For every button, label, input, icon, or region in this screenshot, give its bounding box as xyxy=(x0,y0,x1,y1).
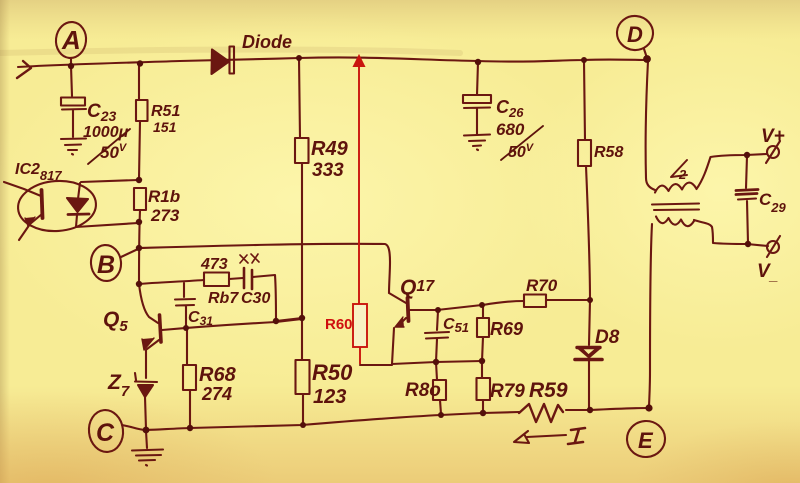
inductor L2 top winding xyxy=(655,183,696,193)
resistor R49 xyxy=(299,58,302,318)
transistor Q5 xyxy=(139,284,158,323)
svg-text:123: 123 xyxy=(313,386,346,408)
resistor R59 (zigzag) xyxy=(519,404,563,422)
svg-text:R8o: R8o xyxy=(405,380,441,401)
highlight line for R60 xyxy=(359,62,360,364)
resistor R69 xyxy=(482,306,483,361)
inductor L2 bottom winding xyxy=(656,217,694,227)
slash through C23 voltage xyxy=(88,129,130,164)
svg-text:680: 680 xyxy=(496,120,525,139)
crossed-out marks above C30 xyxy=(240,254,259,263)
svg-text:R69: R69 xyxy=(490,319,523,339)
paper crease shadow above top rail xyxy=(0,50,460,53)
L2 core xyxy=(652,204,699,211)
op-coupler IC2 xyxy=(16,178,97,233)
svg-text:B: B xyxy=(97,251,115,279)
svg-text:C30: C30 xyxy=(241,290,270,307)
capacitor C26 xyxy=(477,62,478,95)
wire: L2 bottom winding to V- xyxy=(694,220,768,246)
V- terminal xyxy=(767,241,779,253)
svg-text:Rb7: Rb7 xyxy=(208,290,239,307)
slash through C26 voltage xyxy=(501,126,543,160)
svg-text:A: A xyxy=(61,25,81,55)
wire: R60 bottom to Q17 emitter xyxy=(360,364,392,366)
resistor R16 xyxy=(134,188,146,210)
svg-text:R68: R68 xyxy=(199,364,237,386)
ground (C23) xyxy=(61,139,86,155)
wire: IC2 bottom lead to R16 node xyxy=(76,223,138,227)
capacitor C29 xyxy=(746,156,747,188)
junction dots xyxy=(68,63,74,69)
ground (node C) xyxy=(146,431,147,448)
svg-text:R79: R79 xyxy=(490,381,525,402)
svg-text:R49: R49 xyxy=(311,138,349,160)
wire: IC2 top lead to R16 node xyxy=(81,180,138,182)
wire: top rail A-D xyxy=(18,57,647,67)
zener Z7 xyxy=(135,373,157,382)
wire: bottom rail C to E xyxy=(131,412,519,430)
svg-text:R60: R60 xyxy=(325,316,353,333)
node E xyxy=(626,420,666,459)
capacitor C31 xyxy=(175,283,195,328)
IC2 phototransistor xyxy=(42,190,43,218)
node B xyxy=(89,244,122,282)
svg-text:E: E xyxy=(638,428,654,453)
svg-text:R58: R58 xyxy=(594,144,623,161)
wire: B rail to Q17 collector xyxy=(139,244,390,293)
resistor R50 xyxy=(302,318,303,425)
wire: D node down to L2 primary xyxy=(646,61,655,190)
svg-text:R1b: R1b xyxy=(148,187,180,206)
svg-text:D8: D8 xyxy=(595,327,620,348)
wire: base node to R49/R50 column xyxy=(276,318,302,321)
svg-text:R50: R50 xyxy=(312,360,353,385)
zener D8 xyxy=(589,300,590,345)
V+ terminal xyxy=(767,146,779,158)
node D xyxy=(616,14,655,51)
svg-text:1000μ: 1000μ xyxy=(83,124,129,141)
input arrow at left end of top rail xyxy=(17,61,31,78)
resistor R60 (highlighted) xyxy=(353,304,367,347)
resistor R67 xyxy=(139,280,204,284)
svg-text:473: 473 xyxy=(200,256,228,273)
capacitor C51 xyxy=(425,311,449,362)
capacitor C30 xyxy=(229,278,243,279)
resistor R70 xyxy=(483,300,589,305)
svg-text:R51: R51 xyxy=(151,103,180,120)
resistor R80 xyxy=(436,362,441,414)
resistor R51 xyxy=(139,64,140,179)
label L2 glyph xyxy=(671,160,687,177)
transistor Q17 xyxy=(408,298,409,321)
svg-text:V+: V+ xyxy=(761,126,785,147)
wire: Q5 base line xyxy=(162,319,302,330)
svg-text:R59: R59 xyxy=(529,379,568,402)
svg-text:R70: R70 xyxy=(526,276,558,295)
svg-text:C: C xyxy=(96,419,115,447)
capacitor C23 xyxy=(71,66,72,96)
resistor R79 xyxy=(482,362,483,413)
node A xyxy=(54,21,88,60)
wire: L2 bottom winding down to node E xyxy=(649,224,652,408)
diode (top rail) xyxy=(212,50,230,75)
svg-text:333: 333 xyxy=(312,160,344,181)
svg-text:151: 151 xyxy=(153,119,177,135)
resistor R68 xyxy=(187,328,190,428)
svg-text:2: 2 xyxy=(678,167,687,182)
node C xyxy=(87,408,125,453)
wire: emitter rail under Q17 xyxy=(392,361,482,364)
wire: L2 top winding to V+ xyxy=(697,154,768,189)
ground (C26) xyxy=(464,135,490,151)
svg-text:D: D xyxy=(627,22,643,47)
current arrow I xyxy=(514,431,566,443)
svg-text:273: 273 xyxy=(150,206,180,225)
svg-text:274: 274 xyxy=(201,384,232,404)
wire: Q17 base to R69/R70 node xyxy=(410,305,482,310)
IC2 LED xyxy=(78,183,80,199)
svg-text:Diode: Diode xyxy=(242,32,292,52)
resistor R58 xyxy=(584,61,590,300)
